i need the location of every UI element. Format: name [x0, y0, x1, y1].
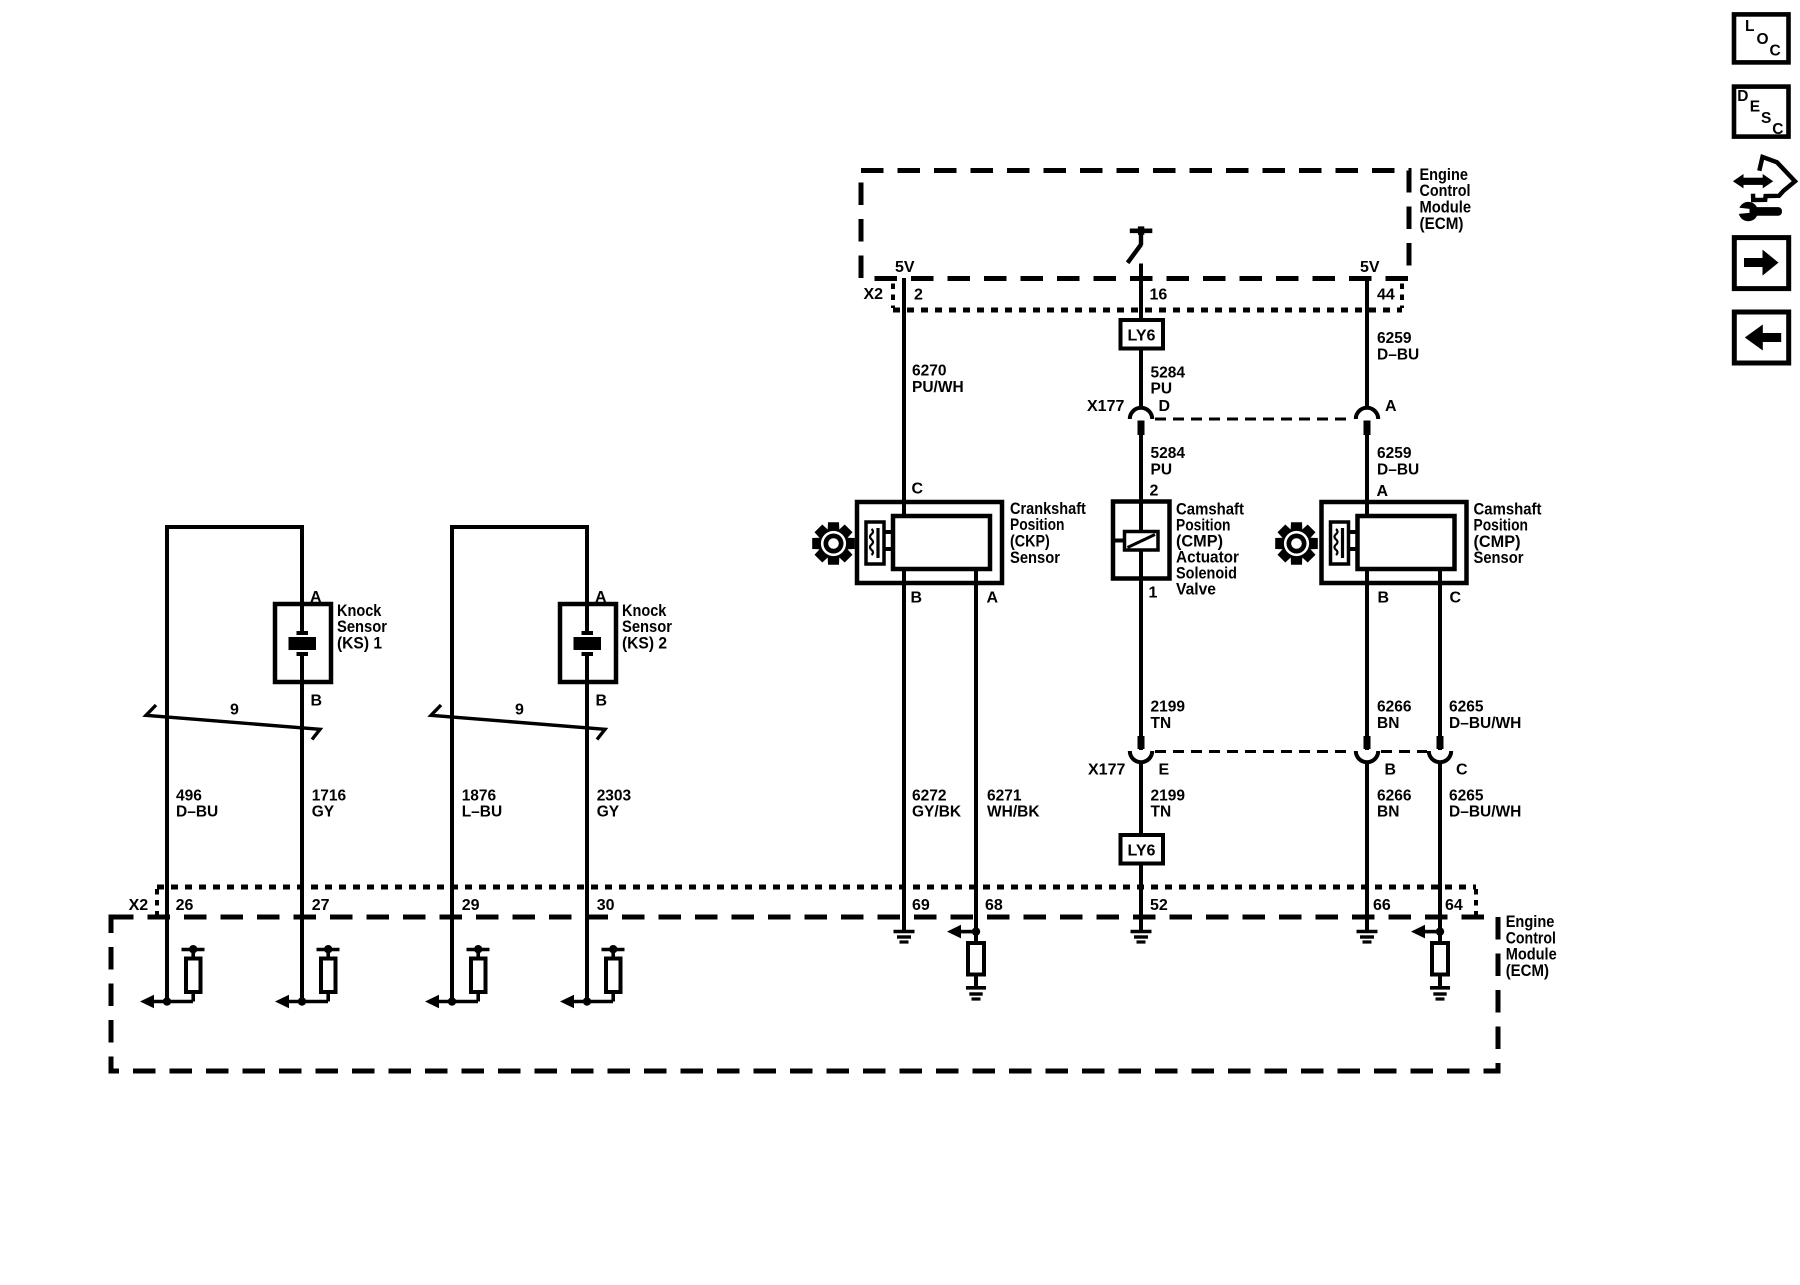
icon button forward arrow — [1734, 238, 1788, 289]
svg-text:X2: X2 — [129, 897, 149, 914]
LY6 engine code box (bottom) — [1121, 835, 1164, 864]
svg-text:LY6: LY6 — [1128, 328, 1156, 345]
wire: X177 C to ECM pin 64 (6265 D-BU/WH) — [1438, 764, 1442, 918]
Knock Sensor (KS) 2 box — [560, 604, 616, 682]
svg-text:D–BU: D–BU — [1377, 462, 1419, 479]
gear icon (CMP reluctor wheel) — [1275, 522, 1318, 565]
svg-text:L–BU: L–BU — [462, 804, 502, 821]
wire: CMP pin C to X177 pin C (6265 D-BU/WH) — [1438, 569, 1442, 750]
svg-text:5284: 5284 — [1151, 445, 1186, 462]
svg-text:BN: BN — [1377, 715, 1399, 732]
wire: LY6 to ECM pin 52 — [1139, 864, 1143, 917]
svg-text:69: 69 — [912, 897, 930, 914]
icon button LOC — [1734, 14, 1789, 62]
wire: CMP pin B to X177 pin B (6266 BN) — [1365, 569, 1369, 750]
svg-text:68: 68 — [985, 897, 1003, 914]
inline connector X177 pin A — [1356, 408, 1378, 419]
CKP sensor (Crankshaft Position) box — [857, 502, 1002, 583]
svg-text:1716: 1716 — [312, 787, 347, 804]
svg-text:B: B — [1385, 762, 1397, 779]
internal pull-up + signal arrow, ECM pin 26 — [165, 917, 169, 1002]
gear icon (CKP reluctor wheel) — [812, 522, 855, 565]
svg-text:(CMP): (CMP) — [1474, 533, 1521, 551]
svg-text:1: 1 — [1149, 584, 1158, 601]
wire: X177 E to LY6 (2199 TN) — [1139, 764, 1143, 835]
wire: CKP pin A to ECM pin 68 (6271 WH/BK) — [974, 569, 978, 917]
svg-text:Crankshaft: Crankshaft — [1010, 500, 1086, 518]
svg-text:9: 9 — [230, 702, 239, 719]
LY6 engine code box (top) — [1121, 320, 1164, 349]
svg-text:B: B — [311, 693, 323, 710]
svg-text:E: E — [1750, 98, 1760, 115]
svg-text:BN: BN — [1377, 804, 1399, 821]
inline connector X177 pin D (female up / male down) — [1130, 408, 1152, 419]
svg-text:D–BU: D–BU — [1377, 346, 1419, 363]
svg-text:B: B — [596, 693, 608, 710]
svg-text:29: 29 — [462, 897, 480, 914]
svg-text:PU: PU — [1151, 462, 1173, 479]
svg-text:A: A — [1385, 398, 1397, 415]
ground, ECM pin 66 — [1365, 917, 1369, 932]
icon button DESC — [1734, 87, 1789, 137]
svg-text:O: O — [1757, 31, 1769, 48]
svg-text:Module: Module — [1506, 946, 1557, 964]
svg-text:Camshaft: Camshaft — [1474, 500, 1542, 518]
svg-text:D: D — [1737, 88, 1748, 105]
svg-text:C: C — [1770, 43, 1781, 60]
svg-text:PU/WH: PU/WH — [912, 379, 964, 396]
wire: X177 A to CMP sensor pin A (6259 D-BU) — [1365, 435, 1369, 516]
svg-text:6259: 6259 — [1377, 330, 1412, 347]
inline connector X177 pin E (male down / female up) — [1138, 736, 1145, 749]
svg-text:6259: 6259 — [1377, 445, 1412, 462]
inline connector X177 pin B — [1364, 736, 1371, 749]
internal pull-up + signal arrow, ECM pin 27 — [300, 917, 304, 1002]
svg-text:D: D — [1159, 398, 1171, 415]
svg-text:Position: Position — [1474, 517, 1529, 535]
svg-text:C: C — [912, 481, 924, 498]
svg-text:(CKP): (CKP) — [1010, 533, 1050, 551]
svg-text:Engine: Engine — [1420, 166, 1468, 184]
svg-text:496: 496 — [176, 787, 202, 804]
svg-text:A: A — [310, 589, 322, 606]
ECM (Engine Control Module) top dashed box — [861, 171, 1409, 279]
svg-text:E: E — [1159, 762, 1170, 779]
inline connector X177 pin C — [1437, 736, 1444, 749]
svg-text:Knock: Knock — [337, 602, 382, 620]
ground, ECM pin 52 — [1139, 917, 1143, 932]
svg-text:D–BU: D–BU — [176, 804, 218, 821]
svg-text:2303: 2303 — [597, 787, 632, 804]
svg-text:(ECM): (ECM) — [1420, 215, 1464, 233]
svg-text:52: 52 — [1150, 897, 1168, 914]
svg-text:Knock: Knock — [622, 602, 667, 620]
wire: ECM pin 44 to X177 pin A (6259 D-BU) — [1365, 278, 1369, 407]
svg-text:C: C — [1450, 590, 1462, 607]
twisted pair marker (9) KS1 — [146, 705, 320, 740]
svg-text:16: 16 — [1150, 286, 1168, 303]
svg-text:2199: 2199 — [1151, 787, 1186, 804]
svg-text:S: S — [1761, 110, 1771, 127]
svg-text:C: C — [1456, 762, 1468, 779]
svg-text:2: 2 — [1150, 482, 1159, 499]
svg-text:Engine: Engine — [1506, 913, 1555, 931]
svg-text:64: 64 — [1445, 897, 1463, 914]
svg-text:26: 26 — [176, 897, 194, 914]
ground, ECM pin 69 — [902, 917, 906, 932]
svg-text:TN: TN — [1151, 804, 1172, 821]
svg-text:C: C — [1772, 121, 1783, 138]
svg-text:Position: Position — [1010, 516, 1065, 534]
svg-text:Sensor: Sensor — [337, 618, 388, 636]
svg-text:Sensor: Sensor — [622, 618, 673, 636]
svg-text:6266: 6266 — [1377, 787, 1412, 804]
icon button back arrow — [1734, 312, 1788, 363]
svg-text:2199: 2199 — [1151, 699, 1186, 716]
svg-text:66: 66 — [1373, 897, 1391, 914]
svg-text:Control: Control — [1420, 182, 1471, 200]
svg-text:(KS) 1: (KS) 1 — [337, 635, 382, 653]
svg-text:A: A — [1377, 483, 1389, 500]
svg-text:6266: 6266 — [1377, 699, 1412, 716]
svg-text:GY/BK: GY/BK — [912, 804, 962, 821]
svg-text:TN: TN — [1151, 715, 1172, 732]
internal pull-up + signal arrow, ECM pin 30 — [585, 917, 589, 1002]
dashed link X177 row 2 (B to C) — [1381, 750, 1427, 753]
svg-text:X2: X2 — [864, 286, 884, 303]
wire: KS2 pin B down to ECM — [585, 682, 589, 917]
svg-text:(KS) 2: (KS) 2 — [622, 635, 667, 653]
wire: CKP pin B to ECM pin 69 (6272 GY/BK) — [902, 569, 906, 917]
wire: LY6 to X177 pin D (5284 PU) — [1139, 349, 1143, 407]
CMP sensor (Camshaft Position) box — [1322, 502, 1467, 583]
wire: X177 D to solenoid pin 2 (5284 PU) — [1139, 435, 1143, 532]
svg-text:X177: X177 — [1087, 398, 1124, 415]
svg-text:5V: 5V — [895, 259, 915, 276]
svg-text:6270: 6270 — [912, 363, 946, 380]
svg-text:6265: 6265 — [1449, 787, 1484, 804]
twisted pair marker (9) KS2 — [431, 705, 605, 740]
signal arrow + resistor + ground, ECM pin 64 — [1438, 917, 1442, 943]
ECM (Engine Control Module) bottom dashed box — [111, 917, 1498, 1071]
svg-text:B: B — [1378, 590, 1390, 607]
svg-text:PU: PU — [1151, 381, 1173, 398]
svg-text:6272: 6272 — [912, 787, 946, 804]
svg-text:A: A — [595, 589, 607, 606]
Knock Sensor (KS) 1 box — [275, 604, 331, 682]
svg-text:D–BU/WH: D–BU/WH — [1449, 804, 1521, 821]
svg-text:Sensor: Sensor — [1474, 549, 1525, 567]
svg-text:2: 2 — [914, 286, 923, 303]
svg-text:27: 27 — [312, 897, 330, 914]
svg-text:D–BU/WH: D–BU/WH — [1449, 715, 1521, 732]
svg-text:Module: Module — [1420, 199, 1472, 217]
icon: navigation arrows + wrench — [1733, 174, 1744, 188]
svg-text:A: A — [987, 590, 999, 607]
svg-text:5V: 5V — [1360, 259, 1380, 276]
svg-text:Sensor: Sensor — [1010, 549, 1061, 567]
wire: solenoid pin 1 to X177 pin E (2199 TN) — [1139, 579, 1143, 751]
wire: KS1 pin B down to ECM — [300, 682, 304, 917]
svg-text:GY: GY — [597, 804, 620, 821]
svg-text:Control: Control — [1506, 929, 1556, 947]
dashed link X177 row 2 (E to B) — [1155, 750, 1353, 753]
svg-text:1876: 1876 — [462, 787, 497, 804]
svg-text:WH/BK: WH/BK — [987, 804, 1040, 821]
connector X2 band (bottom): dotted boundary — [157, 885, 1476, 890]
wire: driver to LY6 (5284 PU), upper segment — [1139, 264, 1143, 321]
svg-text:LY6: LY6 — [1128, 843, 1156, 860]
dashed link X177 row 1 — [1155, 418, 1352, 421]
internal pull-up + signal arrow, ECM pin 29 — [450, 917, 454, 1002]
svg-text:GY: GY — [312, 804, 335, 821]
svg-text:6265: 6265 — [1449, 699, 1484, 716]
svg-text:X177: X177 — [1088, 762, 1125, 779]
driver symbol (ECM internal output, pin 16) — [1130, 229, 1153, 234]
connector X2 band (top): dotted boundary — [893, 308, 1402, 313]
wire loop: KS2 supply (top link) — [450, 525, 454, 917]
svg-text:(ECM): (ECM) — [1506, 962, 1549, 980]
svg-text:30: 30 — [597, 897, 615, 914]
svg-text:Valve: Valve — [1176, 581, 1216, 599]
CMP actuator solenoid valve box — [1113, 502, 1170, 579]
wire: X177 B to ECM pin 66 (6266 BN) — [1365, 764, 1369, 918]
signal arrow + resistor + ground, ECM pin 68 — [974, 917, 978, 943]
svg-text:L: L — [1745, 18, 1754, 35]
wire: ECM pin 2 to CKP sensor pin C (6270 PU/WH) — [902, 278, 906, 516]
svg-text:5284: 5284 — [1151, 364, 1186, 381]
wire loop: KS1 supply (top link) — [165, 525, 169, 917]
svg-text:44: 44 — [1377, 286, 1395, 303]
svg-text:6271: 6271 — [987, 787, 1022, 804]
svg-text:B: B — [911, 590, 923, 607]
svg-text:9: 9 — [515, 702, 524, 719]
